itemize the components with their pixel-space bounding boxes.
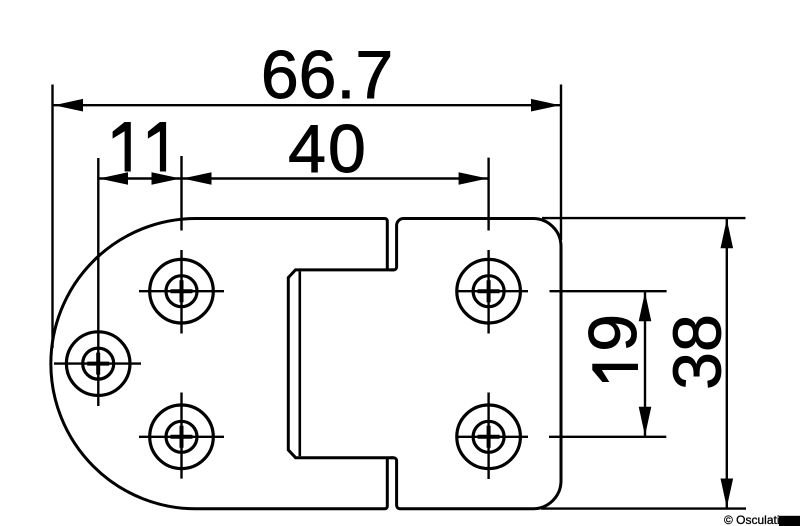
hole H2 center mark cross [171,280,193,302]
svg-text:38: 38 [660,314,736,390]
hinge left leaf bottom step, bottom edge and round end arc [51,219,387,509]
hinge left leaf notch and tab edge [288,270,393,458]
hole H1 left outer circle [66,332,130,396]
arrow 40 left [183,172,212,185]
hole H5 bottom-right outer circle [457,405,521,469]
hole H5 center mark cross [478,426,500,448]
hinge left leaf top edge and right step [196,219,387,270]
hole H3 centerlines [139,393,224,479]
hole H2 centerlines [139,156,224,334]
dim 11/40 line [98,177,488,179]
svg-text:66.7: 66.7 [261,37,393,113]
dim 19 line [644,291,646,437]
arrow 11 right [152,172,181,185]
hole H3 bottom-middle inner circle [166,421,197,452]
svg-text:© Osculati: © Osculati [724,513,780,526]
arrow 38 top [721,219,734,248]
hole H4 centerlines [457,158,528,334]
hole H4 top-right outer circle [457,259,521,323]
arrow 66.7 right [531,99,560,112]
arrow 11 left [99,172,128,185]
hinge right leaf outline [391,219,561,509]
svg-text:9: 9 [575,314,651,352]
hole H5 centerlines [457,393,528,480]
arrow 19 top [639,292,652,321]
hole H3 center mark cross [171,426,193,448]
arrow 38 bottom [721,479,734,508]
black corner tag [779,516,800,526]
dim 66.7 line [53,104,562,106]
hole H5 bottom-right inner circle [473,421,504,452]
bend line of left leaf tab [298,271,301,456]
hole H1 centerlines [54,158,141,406]
svg-text:40: 40 [288,111,368,187]
dim text 19 (rotated) [575,314,651,382]
dim 38 line [726,218,728,508]
arrow 66.7 left [54,99,83,112]
arrow 19 bottom [639,407,652,436]
hole H2 top-middle inner circle [166,276,197,307]
arrow 40 right [459,172,488,185]
hole H4 top-right inner circle [473,276,504,307]
hole H2 top-middle outer circle [150,259,214,323]
dim text 11 [113,122,167,172]
hole H4 center mark cross [478,280,500,302]
hole H1 left inner circle [83,348,114,379]
dim 66.7 extension lines [53,85,562,349]
hole H3 bottom-middle outer circle [150,405,214,469]
dim 38 extension lines [541,218,746,509]
dim 19 extension lines [549,291,667,437]
hole H1 center mark cross [87,353,109,375]
